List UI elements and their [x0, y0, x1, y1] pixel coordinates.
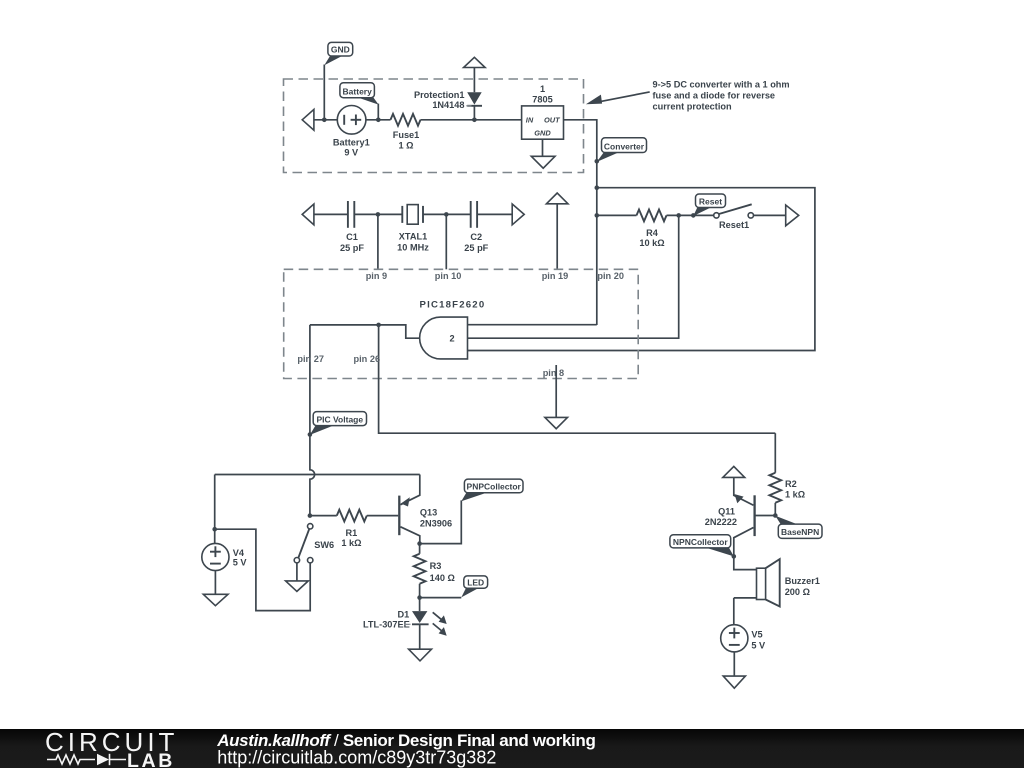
wire V4 top rail: [215, 474, 420, 476]
svg-text:200 Ω: 200 Ω: [785, 587, 810, 597]
wire GND to battery net: [323, 65, 325, 120]
junction R3 bottom: [417, 595, 422, 600]
svg-text:http://circuitlab.com/c89y3tr7: http://circuitlab.com/c89y3tr73g382: [217, 748, 496, 768]
node flag left arrow (crystal row): [302, 204, 314, 225]
junction reset flag: [691, 213, 696, 218]
wire to R4: [597, 214, 637, 216]
svg-text:pin 27: pin 27: [297, 354, 324, 364]
svg-text:current protection: current protection: [653, 102, 733, 112]
svg-text:V4: V4: [233, 548, 245, 558]
junction pin 9: [376, 212, 381, 217]
footer bar: [0, 727, 1024, 768]
svg-text:pin 26: pin 26: [354, 354, 381, 364]
ground (SW6): [286, 581, 309, 592]
svg-text:25 pF: 25 pF: [464, 243, 488, 253]
wire diode to node: [473, 106, 475, 120]
svg-text:LAB: LAB: [127, 750, 175, 768]
junction GND/battery: [322, 118, 327, 123]
svg-text:1 kΩ: 1 kΩ: [785, 490, 805, 500]
wire to C1: [314, 213, 348, 215]
buzzer Buzzer1: [734, 556, 820, 606]
flag NPNCollector: [670, 535, 734, 557]
svg-text:pin 10: pin 10: [435, 271, 462, 281]
flag GND: [324, 42, 352, 65]
switch Reset1: [714, 204, 754, 230]
ground (V5): [723, 676, 745, 688]
wire gate input: [310, 325, 420, 338]
svg-text:NPNCollector: NPNCollector: [673, 537, 728, 547]
ground (7805): [531, 156, 555, 168]
svg-text:XTAL1: XTAL1: [399, 231, 427, 241]
svg-text:1 kΩ: 1 kΩ: [341, 538, 361, 548]
junction R4 left: [595, 213, 600, 218]
svg-text:5 V: 5 V: [233, 558, 248, 568]
wire R4 to switch: [667, 214, 714, 216]
junction Q13 collector: [417, 541, 422, 546]
svg-text:Fuse1: Fuse1: [393, 130, 420, 140]
op-amp gate U1 (mirrored AND): [420, 317, 468, 359]
diode Protection1 1N4148: [414, 90, 482, 110]
wire battery flag stem: [377, 104, 379, 120]
svg-text:Reset1: Reset1: [719, 220, 749, 230]
voltage source V4: [202, 475, 248, 571]
svg-text:LTL-307EE: LTL-307EE: [363, 619, 410, 629]
node flag right arrow (Reset1): [786, 205, 799, 226]
flag PNPCollector: [461, 479, 523, 501]
ground (D1): [409, 649, 432, 661]
svg-text:Protection1: Protection1: [414, 90, 465, 100]
junction diode/IN wire: [472, 118, 477, 123]
svg-text:C1: C1: [346, 232, 358, 242]
transistor Q11 2N2222 NPN: [705, 477, 776, 556]
svg-text:pin 20: pin 20: [597, 271, 624, 281]
wire XTAL1 to C2: [423, 213, 471, 215]
svg-text:Reset: Reset: [699, 196, 722, 206]
flag Reset: [693, 194, 725, 216]
svg-text:1: 1: [540, 84, 545, 94]
resistor R1: [337, 510, 367, 548]
junction top right: [595, 185, 600, 190]
crystal XTAL1: [397, 205, 429, 253]
node flag down arrow pin 8: [545, 417, 568, 428]
wire V5 ground stem: [733, 652, 735, 676]
logo squiggle resistor+diode: [47, 754, 126, 765]
junction R4 right / gate feedback: [676, 213, 681, 218]
svg-text:fuse and a diode for reverse: fuse and a diode for reverse: [653, 91, 776, 101]
junction PIC Voltage: [308, 432, 313, 437]
wire C1 to XTAL1: [354, 213, 402, 215]
svg-text:9 V: 9 V: [344, 147, 359, 157]
svg-text:R1: R1: [346, 528, 358, 538]
svg-text:R2: R2: [785, 479, 797, 489]
svg-text:PIC Voltage: PIC Voltage: [316, 414, 363, 424]
svg-text:pin 8: pin 8: [543, 368, 564, 378]
flag LED: [461, 576, 487, 598]
flag BaseNPN: [775, 516, 822, 539]
wire arrow to battery: [314, 119, 337, 121]
wire C2 to right arrow: [477, 213, 512, 215]
wire pin 8 stem: [555, 365, 557, 417]
switch SW6: [294, 524, 334, 563]
voltage source V5: [721, 598, 766, 652]
wire pin 10 stem: [445, 214, 447, 269]
svg-text:10 kΩ: 10 kΩ: [639, 238, 664, 248]
node flag up arrow above diode: [464, 57, 486, 67]
wire SW6 left to ground: [296, 563, 298, 581]
svg-text:2N3906: 2N3906: [420, 518, 452, 528]
battery V=Battery1: [333, 106, 370, 158]
svg-text:GND: GND: [534, 129, 551, 138]
svg-text:2: 2: [449, 333, 454, 343]
wire pin 9 stem: [377, 214, 379, 269]
resistor R2: [769, 473, 805, 516]
capacitor C1: [340, 201, 364, 253]
node flag up arrow (Q11 emitter): [723, 466, 745, 477]
svg-text:140 Ω: 140 Ω: [430, 573, 455, 583]
PIC dashed box: [284, 269, 639, 378]
wire pin 19 stem: [556, 204, 558, 269]
junction converter flag: [595, 159, 600, 164]
wire arrow to diode: [473, 68, 475, 93]
svg-text:1 Ω: 1 Ω: [398, 141, 413, 151]
flag Converter: [597, 138, 647, 162]
wire 7805 OUT to converter node: [564, 120, 597, 325]
svg-text:PIC18F2620: PIC18F2620: [420, 300, 486, 311]
wire gate middle output riser: [468, 215, 679, 338]
wire V4 loop to SW6: [215, 529, 311, 610]
capacitor C2: [464, 201, 488, 253]
svg-text:pin 19: pin 19: [542, 271, 569, 281]
flag PIC Voltage: [310, 412, 367, 435]
svg-text:C2: C2: [470, 232, 482, 242]
svg-text:Converter: Converter: [604, 141, 645, 151]
svg-text:PNPCollector: PNPCollector: [467, 482, 522, 492]
svg-text:Q11: Q11: [718, 507, 735, 517]
svg-text:Buzzer1: Buzzer1: [785, 576, 820, 586]
svg-text:D1: D1: [397, 609, 409, 619]
node flag left arrow (battery net): [302, 109, 314, 130]
junction V4 branch: [212, 527, 217, 532]
svg-text:SW6: SW6: [314, 540, 334, 550]
svg-text:5 V: 5 V: [751, 641, 766, 651]
transistor Q13 2N3906 PNP: [399, 475, 452, 544]
svg-text:IN: IN: [526, 115, 534, 124]
svg-text:LED: LED: [467, 578, 484, 588]
svg-text:25 pF: 25 pF: [340, 243, 364, 253]
svg-text:R4: R4: [646, 228, 659, 238]
junction battery+: [376, 118, 381, 123]
converter dashed box: [284, 79, 584, 173]
node flag up arrow pin 19: [546, 193, 568, 204]
svg-text:9->5 DC converter with a 1 ohm: 9->5 DC converter with a 1 ohm: [653, 80, 790, 90]
wire R2 drop: [774, 433, 776, 473]
svg-text:pin 9: pin 9: [366, 271, 387, 281]
LED D1 LTL-307EE: [363, 598, 447, 650]
svg-text:10 MHz: 10 MHz: [397, 242, 429, 252]
resistor R3: [414, 544, 455, 598]
wire 7805 GND stem: [542, 139, 544, 156]
wire R1 to Q13 base: [367, 515, 398, 517]
op-amp U1 regulator 7805: [522, 84, 564, 139]
svg-text:BaseNPN: BaseNPN: [781, 527, 819, 537]
flag Battery: [340, 83, 379, 105]
junction pin 26: [376, 323, 381, 328]
wire fuse to 7805 IN: [421, 119, 522, 121]
wire to R1: [310, 515, 337, 517]
resistor R4: [637, 210, 667, 248]
wire battery to fuse: [366, 119, 391, 121]
annotation text: [653, 80, 790, 112]
wire switch to arrow: [754, 214, 786, 216]
svg-text:1N4148: 1N4148: [432, 100, 464, 110]
svg-text:2N2222: 2N2222: [705, 517, 737, 527]
svg-text:GND: GND: [331, 45, 350, 55]
ground (V4): [203, 594, 228, 605]
svg-text:V5: V5: [751, 630, 762, 640]
wire gate top output to pin20 net: [468, 324, 597, 326]
svg-text:7805: 7805: [532, 94, 552, 104]
svg-text:Battery: Battery: [343, 86, 373, 96]
junction Q11 collector: [732, 554, 737, 559]
annotation arrow: [586, 92, 650, 104]
svg-text:R3: R3: [430, 561, 442, 571]
junction pin 10: [444, 212, 449, 217]
wire PIC voltage down with hop: [310, 435, 315, 516]
svg-text:OUT: OUT: [544, 115, 561, 124]
node flag right arrow (crystal row): [512, 204, 524, 225]
wire pin 27 drop: [309, 325, 311, 435]
wire to LED flag: [420, 597, 462, 599]
wire collector to PNPCollector flag: [420, 500, 462, 543]
junction R1 left: [308, 513, 313, 518]
svg-text:Q13: Q13: [420, 507, 437, 517]
svg-text:Battery1: Battery1: [333, 137, 370, 147]
wire pin 26 drop and run to R2: [379, 325, 776, 433]
junction Q11 base: [773, 513, 778, 518]
resistor Fuse1: [391, 114, 421, 151]
wire V4 ground stem: [214, 571, 216, 595]
wire top right loop: [468, 188, 815, 351]
